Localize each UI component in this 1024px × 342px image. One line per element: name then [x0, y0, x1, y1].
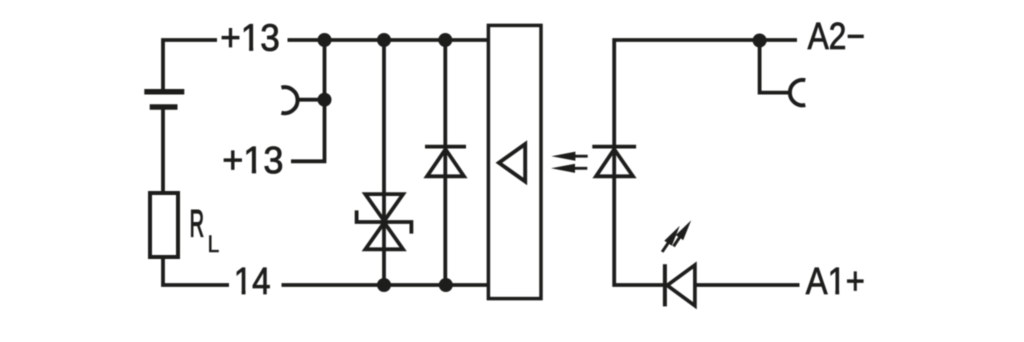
svg-text:+13: +13 [222, 138, 283, 181]
svg-text:+13: +13 [220, 16, 280, 59]
svg-text:A2−: A2− [808, 15, 865, 57]
svg-text:R: R [190, 204, 204, 245]
svg-text:L: L [208, 231, 220, 258]
svg-text:A1+: A1+ [806, 259, 865, 302]
svg-text:14: 14 [234, 260, 271, 303]
